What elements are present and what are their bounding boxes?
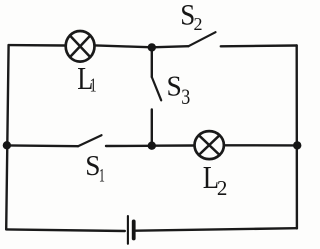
switch S2 blade: [189, 32, 216, 46]
switch S1 blade: [78, 135, 102, 146]
svg-text:2: 2: [194, 14, 203, 34]
wire L1 to top junction: [96, 45, 149, 47]
label L1: [77, 60, 96, 97]
node junction left rail / middle rail: [3, 141, 11, 149]
node junction middle rail / right rail: [293, 141, 301, 149]
node junction S3 / middle rail: [148, 142, 156, 150]
wire bottom rail left of battery: [6, 229, 125, 231]
label S1: [85, 150, 105, 186]
wire top-left rail: [9, 44, 65, 47]
svg-text:2: 2: [217, 176, 228, 200]
wire S3 lower lead: [151, 110, 153, 146]
lamp L2: [195, 131, 224, 159]
node junction top (S2/S3 tap): [148, 43, 156, 51]
switch S3 blade: [152, 77, 161, 100]
svg-text:1: 1: [90, 76, 97, 97]
wire right rail: [296, 46, 299, 229]
label S3: [167, 70, 191, 108]
wire middle junction to L2: [152, 144, 194, 147]
wire top junction to S2 pivot: [152, 46, 189, 47]
wire L2 to right rail: [225, 144, 297, 146]
svg-text:3: 3: [181, 84, 190, 109]
battery B1: [128, 216, 134, 244]
wire S2 fixed contact to top-right corner: [221, 44, 297, 47]
svg-text:1: 1: [99, 166, 105, 187]
label L2: [203, 159, 228, 200]
lamp L1: [66, 31, 95, 62]
wire S3 upper lead: [151, 47, 153, 77]
wire bottom rail right of battery: [136, 228, 297, 231]
wire left rail: [6, 45, 8, 229]
label S2: [180, 0, 202, 34]
wire S1 fixed contact to middle junction: [106, 145, 149, 148]
wire middle rail left to S1 pivot: [7, 144, 78, 147]
svg-text:S: S: [167, 70, 182, 102]
